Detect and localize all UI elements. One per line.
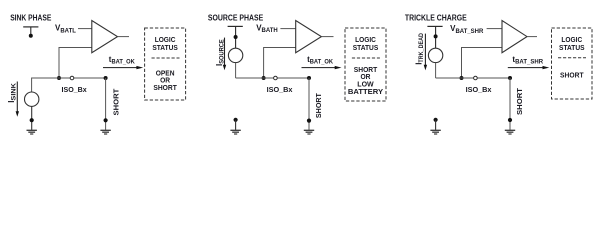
svg-text:SINK PHASE: SINK PHASE [10, 13, 52, 22]
svg-text:tBAT_OK: tBAT_OK [307, 55, 334, 66]
svg-text:SHORT: SHORT [515, 88, 524, 115]
svg-text:ISO_Bx: ISO_Bx [466, 85, 493, 94]
svg-text:ISO_Bx: ISO_Bx [267, 85, 294, 94]
svg-text:VBATL: VBATL [55, 24, 76, 35]
svg-text:SHORT: SHORT [153, 83, 177, 92]
svg-text:SHORT: SHORT [111, 88, 120, 115]
svg-text:ISOURCE: ISOURCE [215, 39, 226, 66]
svg-text:tBAT_SHR: tBAT_SHR [512, 55, 543, 66]
svg-text:STATUS: STATUS [559, 43, 585, 52]
svg-text:TRICKLE CHARGE: TRICKLE CHARGE [405, 13, 467, 22]
svg-text:VBATH: VBATH [256, 23, 278, 34]
svg-text:tBAT_OK: tBAT_OK [109, 55, 136, 66]
svg-text:VBAT_SHR: VBAT_SHR [450, 24, 484, 35]
svg-text:STATUS: STATUS [353, 43, 379, 52]
svg-text:SHORT: SHORT [314, 93, 323, 118]
svg-text:SOURCE PHASE: SOURCE PHASE [208, 13, 264, 22]
svg-text:ITRK_DEAD: ITRK_DEAD [414, 32, 425, 64]
svg-text:ISINK: ISINK [7, 82, 18, 103]
svg-text:BATTERY: BATTERY [348, 87, 383, 96]
svg-text:STATUS: STATUS [152, 43, 178, 52]
svg-text:SHORT: SHORT [560, 70, 584, 79]
svg-text:ISO_Bx: ISO_Bx [62, 85, 88, 94]
